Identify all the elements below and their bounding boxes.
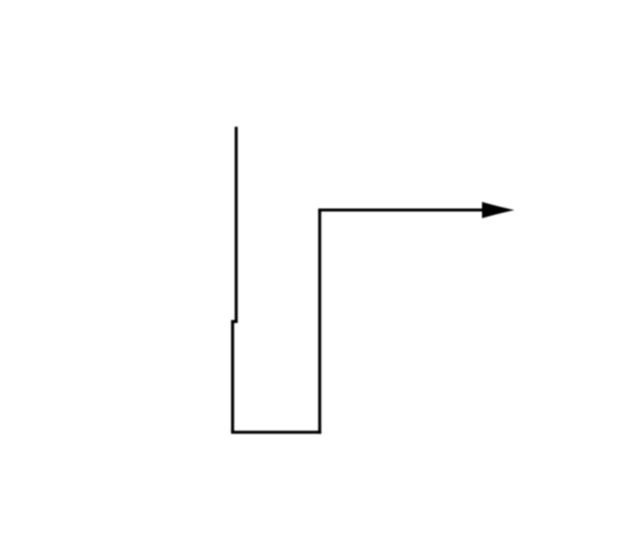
wire vertical segment top — [235, 127, 238, 322]
wire top horizontal segment to arrow — [318, 209, 484, 212]
arrowhead — [482, 202, 514, 218]
wire bottom horizontal segment — [231, 431, 321, 434]
wire vertical segment lower-left — [231, 320, 234, 432]
wire jog step — [233, 320, 238, 323]
wire right vertical segment — [318, 210, 321, 434]
